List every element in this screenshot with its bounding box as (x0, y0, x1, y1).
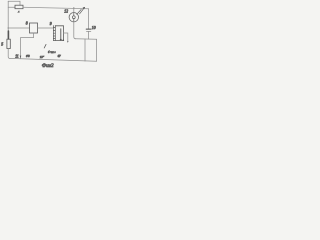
svg-text:12: 12 (64, 9, 68, 13)
arrow across meter (77, 9, 81, 14)
meter inner mark (72, 16, 75, 19)
cell 9 inner electrode (60, 29, 62, 40)
arrowhead at bus junction (20, 56, 22, 59)
arrow stub tip (67, 41, 68, 43)
block (top box) (15, 5, 23, 9)
wire bottom bus (10, 58, 97, 61)
tick mark (44, 44, 46, 48)
meter 12 circle (69, 13, 78, 22)
arrow mark under top box (17, 10, 19, 12)
block 8 body (30, 23, 38, 33)
wire meter top stem (73, 8, 75, 13)
node inner electrode foot (60, 39, 62, 41)
thick segment on left rail (7, 31, 9, 39)
svg-text:1З″: 1З″ (40, 55, 45, 59)
wire into block left side (8, 6, 15, 8)
wire left vertical rail (7, 1, 9, 39)
meter inner stem (73, 13, 75, 15)
wire top bus (23, 7, 89, 9)
svg-text:9: 9 (50, 22, 52, 26)
node top bus to meter (73, 7, 74, 8)
cell 9 hatched electrode bar (53, 26, 55, 41)
paper background (0, 0, 100, 70)
capacitor 10 bottom stem (88, 31, 90, 39)
svg-text:б чм г: б чм г (48, 50, 56, 54)
wire branch to block 8 (8, 27, 29, 29)
svg-text:Фиг2: Фиг2 (42, 63, 54, 69)
capacitor 10 top plate (86, 28, 91, 30)
resistor R5 body (7, 39, 10, 48)
svg-text:11: 11 (15, 55, 19, 59)
wire right vertical (96, 39, 98, 61)
cell 9 vessel outline (53, 26, 63, 41)
node vessel corner (63, 39, 65, 41)
svg-text:10: 10 (92, 26, 96, 30)
svg-text:5: 5 (1, 42, 3, 46)
wire left rail below resistor (8, 49, 10, 59)
wire meter bottom stem (74, 22, 76, 39)
svg-text:8: 8 (26, 22, 28, 26)
wire block 8 to cell 9 (38, 27, 54, 29)
wire lower-right vertical (84, 39, 86, 61)
svg-text:6′8: 6′8 (26, 54, 30, 58)
wire cell 9 right stub (64, 33, 68, 42)
svg-text:б7: б7 (58, 54, 62, 58)
capacitor 10 bottom plate (87, 30, 91, 32)
capacitor 10 top stem (88, 9, 90, 29)
wire mid-right horizontal (75, 38, 97, 41)
arrowhead (83, 7, 85, 9)
wire block 8 bottom jog (21, 33, 34, 59)
wire top-left loop horizontal (8, 1, 20, 5)
node at left rail to branch 8 (8, 27, 9, 28)
